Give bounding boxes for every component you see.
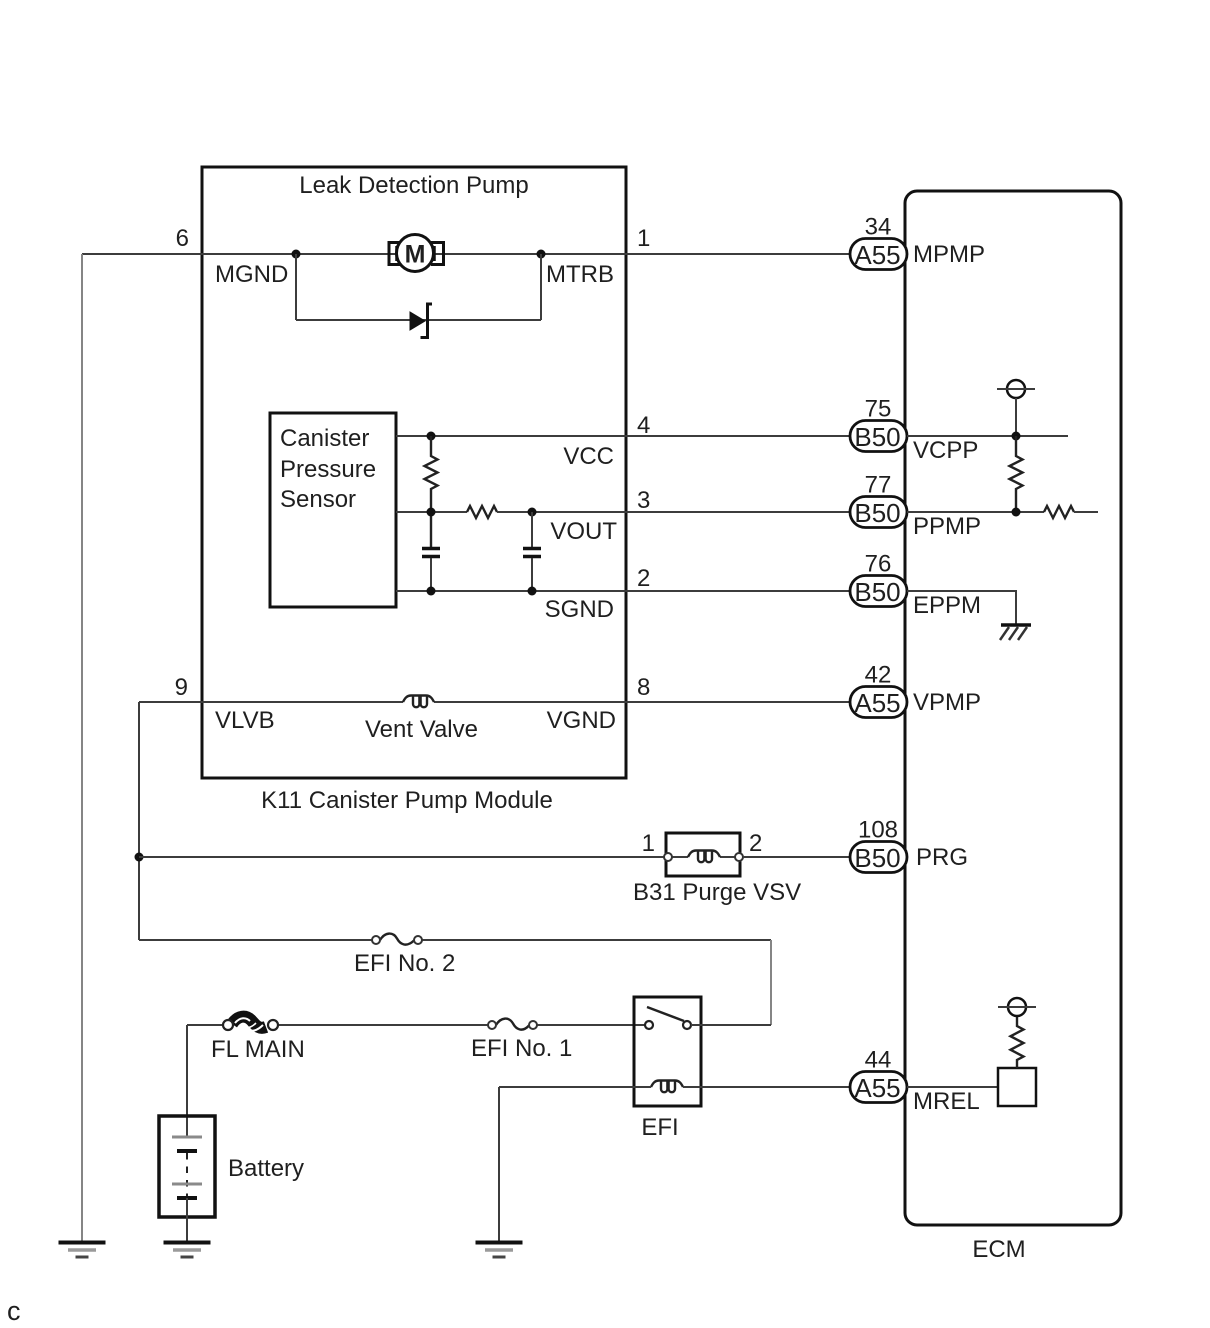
label: K11 Canister Pump Module: [261, 787, 553, 814]
label: 76: [865, 551, 892, 578]
wire: relay switch to EFI No.2 drop: [691, 1024, 771, 1026]
wire: vent valve row pin9 VLVB to pin8 VGND to ECM pin42: [139, 701, 850, 703]
label: MREL: [913, 1088, 980, 1115]
label: pin 2: [637, 565, 650, 592]
connector B50 pin 77 PPMP: [850, 497, 907, 529]
label: 75: [865, 396, 892, 423]
svg-text:c: c: [7, 1296, 21, 1326]
node: SGND junction B: [528, 587, 537, 596]
label: pin 6: [176, 225, 189, 252]
capacitor C1: [422, 549, 440, 592]
svg-text:B31 Purge VSV: B31 Purge VSV: [633, 879, 801, 906]
svg-text:M: M: [405, 241, 426, 269]
label: 34: [865, 214, 892, 241]
power terminal for MREL: [998, 998, 1036, 1016]
label: VSV pin 1: [642, 830, 655, 857]
label: VGND: [547, 707, 616, 734]
wire: VOUT to ECM pin77: [497, 511, 850, 513]
wire: SGND pin2 to ECM pin76: [396, 590, 850, 592]
ground G2 (battery): [164, 1243, 211, 1258]
label: 44: [865, 1047, 892, 1074]
fusible link FL MAIN: [223, 1017, 278, 1031]
svg-text:6: 6: [176, 225, 189, 252]
wire: motor row pin6 MGND to pin1 MTRB to ECM pin34: [82, 253, 850, 255]
svg-text:EFI: EFI: [641, 1114, 678, 1141]
connector A55 pin 42 VPMP: [850, 687, 907, 719]
svg-text:VCC: VCC: [563, 443, 614, 470]
svg-text:EFI No. 1: EFI No. 1: [471, 1035, 572, 1062]
svg-text:B50: B50: [854, 577, 900, 607]
label: ECM: [972, 1236, 1025, 1263]
svg-text:MTRB: MTRB: [546, 261, 614, 288]
node: VCC junction: [427, 432, 436, 441]
power terminal for VCPP pull-up: [997, 380, 1035, 398]
zener diode D across motor: [410, 304, 432, 338]
svg-text:1: 1: [637, 225, 650, 252]
wire: MREL inside ECM: [907, 1086, 998, 1088]
label: 108: [858, 817, 898, 844]
wire: relay coil left to ground: [499, 1087, 651, 1242]
label: MTRB: [546, 261, 614, 288]
svg-text:EPPM: EPPM: [913, 592, 981, 619]
svg-text:A55: A55: [854, 688, 900, 718]
wire: diode branch left drop: [295, 254, 297, 320]
label: VLVB: [215, 707, 275, 734]
fuse EFI No. 1: [488, 1019, 537, 1030]
node: VOUT junction B: [528, 508, 537, 517]
label: VPMP: [913, 689, 981, 716]
svg-text:1: 1: [642, 830, 655, 857]
svg-text:SGND: SGND: [545, 596, 614, 623]
connector A55 pin 34 MPMP: [850, 239, 907, 271]
canister pressure sensor box: [270, 413, 396, 607]
label: Vent Valve: [365, 716, 478, 743]
wire: EFI No.2 drop to relay: [770, 940, 772, 1025]
label: EFI: [641, 1114, 678, 1141]
svg-text:MGND: MGND: [215, 261, 288, 288]
svg-text:34: 34: [865, 214, 892, 241]
label: EFI No. 1: [471, 1035, 572, 1062]
node: VOUT junction A: [427, 508, 436, 517]
svg-text:VGND: VGND: [547, 707, 616, 734]
label: pin 3: [637, 487, 650, 514]
wire: EPPM to chassis ground: [907, 591, 1016, 625]
svg-text:108: 108: [858, 817, 898, 844]
wire: battery positive drop: [186, 1025, 188, 1137]
connector B50 pin 76 EPPM: [850, 576, 907, 608]
wire: VOUT from sensor: [396, 511, 467, 513]
node: SGND junction A: [427, 587, 436, 596]
svg-text:B50: B50: [854, 422, 900, 452]
connector A55 pin 44 MREL: [850, 1072, 907, 1104]
wire: left ground rail: [81, 254, 83, 1242]
connector B50 pin 108 PRG: [850, 842, 907, 874]
wire: PPMP inside ECM: [907, 511, 1044, 513]
relay EFI: [634, 997, 701, 1106]
wire: VSV to ECM pin 108: [743, 856, 850, 858]
wire: PRG to purge VSV: [139, 856, 664, 858]
svg-text:B50: B50: [854, 843, 900, 873]
svg-text:75: 75: [865, 396, 892, 423]
node: MTRB junction: [537, 250, 546, 259]
label: page note c: [7, 1296, 21, 1326]
resistor R5 above load: [1011, 1016, 1024, 1068]
svg-text:Battery: Battery: [228, 1155, 304, 1182]
svg-text:9: 9: [175, 674, 188, 701]
svg-text:VPMP: VPMP: [913, 689, 981, 716]
svg-text:Canister: Canister: [280, 425, 369, 452]
label: pin 4: [637, 412, 650, 439]
node: PPMP junction: [1012, 508, 1021, 517]
svg-text:EFI No. 2: EFI No. 2: [354, 950, 455, 977]
label: PRG: [916, 844, 968, 871]
label: PPMP: [913, 513, 981, 540]
connector B50 pin 75 VCPP: [850, 421, 907, 453]
svg-text:4: 4: [637, 412, 650, 439]
svg-text:MREL: MREL: [913, 1088, 980, 1115]
wire: terminal drop to VCPP: [1015, 398, 1017, 436]
wire: VCC pin4 to ECM pin75: [396, 435, 850, 437]
chassis ground (EPPM): [1000, 625, 1031, 640]
wire: FL MAIN row: [187, 1024, 645, 1026]
node: PRG junction: [135, 853, 144, 862]
label: Canister Pressure Sensor: [280, 425, 376, 513]
label: pin 8: [637, 674, 650, 701]
label: MPMP: [913, 241, 985, 268]
load square in ECM: [998, 1068, 1036, 1106]
label: 42: [865, 662, 892, 689]
svg-text:A55: A55: [854, 1073, 900, 1103]
svg-text:8: 8: [637, 674, 650, 701]
svg-text:44: 44: [865, 1047, 892, 1074]
wire: relay coil to ECM pin 44: [683, 1086, 850, 1088]
label: MGND: [215, 261, 288, 288]
svg-text:Leak Detection Pump: Leak Detection Pump: [299, 172, 528, 199]
wire: EFI No.2 feed: [139, 939, 771, 941]
ECM box: [905, 191, 1121, 1225]
svg-text:B50: B50: [854, 498, 900, 528]
wire: VCPP inside ECM: [907, 435, 1068, 437]
label: pin 9: [175, 674, 188, 701]
svg-text:MPMP: MPMP: [913, 241, 985, 268]
svg-text:3: 3: [637, 487, 650, 514]
label: EPPM: [913, 592, 981, 619]
resistor R1 sensor internal: [425, 436, 438, 548]
svg-text:FL MAIN: FL MAIN: [211, 1036, 305, 1063]
svg-text:42: 42: [865, 662, 892, 689]
solenoid B31 purge VSV: [664, 833, 743, 876]
wire: VLVB rail down: [138, 702, 140, 940]
svg-text:VLVB: VLVB: [215, 707, 275, 734]
label: B31 Purge VSV: [633, 879, 801, 906]
label: Battery: [228, 1155, 304, 1182]
svg-text:K11 Canister Pump Module: K11 Canister Pump Module: [261, 787, 553, 814]
label: EFI No. 2: [354, 950, 455, 977]
ground G1 (left rail): [59, 1243, 106, 1258]
battery: [159, 1116, 215, 1242]
svg-text:77: 77: [865, 472, 892, 499]
ground G3 (relay coil): [476, 1243, 523, 1258]
label: VOUT: [550, 518, 617, 545]
label: VSV pin 2: [749, 830, 762, 857]
svg-text:Pressure: Pressure: [280, 456, 376, 483]
label: SGND: [545, 596, 614, 623]
svg-text:A55: A55: [854, 240, 900, 270]
label: pin 1: [637, 225, 650, 252]
resistor R2 VOUT series: [467, 506, 497, 518]
K11 Canister Pump Module box: [202, 167, 626, 778]
fuse EFI No. 2: [372, 934, 422, 945]
svg-text:PPMP: PPMP: [913, 513, 981, 540]
node: MGND junction: [292, 250, 301, 259]
inductor: vent valve coil: [403, 696, 434, 708]
capacitor C2: [523, 549, 541, 592]
label: FL MAIN: [211, 1036, 305, 1063]
wire: diode branch right drop: [540, 254, 542, 320]
svg-text:Vent Valve: Vent Valve: [365, 716, 478, 743]
wire: PPMP resistor tail: [1074, 511, 1098, 513]
svg-text:ECM: ECM: [972, 1236, 1025, 1263]
node: VCPP junction: [1012, 432, 1021, 441]
label: Leak Detection Pump: [299, 172, 528, 199]
svg-text:2: 2: [749, 830, 762, 857]
label: 77: [865, 472, 892, 499]
motor M leak detection pump: [389, 235, 444, 272]
svg-text:VCPP: VCPP: [913, 437, 978, 464]
label: VCPP: [913, 437, 978, 464]
svg-text:2: 2: [637, 565, 650, 592]
svg-text:Sensor: Sensor: [280, 486, 356, 513]
svg-text:PRG: PRG: [916, 844, 968, 871]
wire: diode branch horizontal: [296, 319, 541, 321]
wire: C2 drop: [531, 512, 533, 548]
resistor R3 VCPP pull-up: [1010, 436, 1023, 512]
resistor R4 PPMP series: [1044, 506, 1074, 518]
svg-text:VOUT: VOUT: [550, 518, 617, 545]
label: VCC: [563, 443, 614, 470]
svg-text:76: 76: [865, 551, 892, 578]
